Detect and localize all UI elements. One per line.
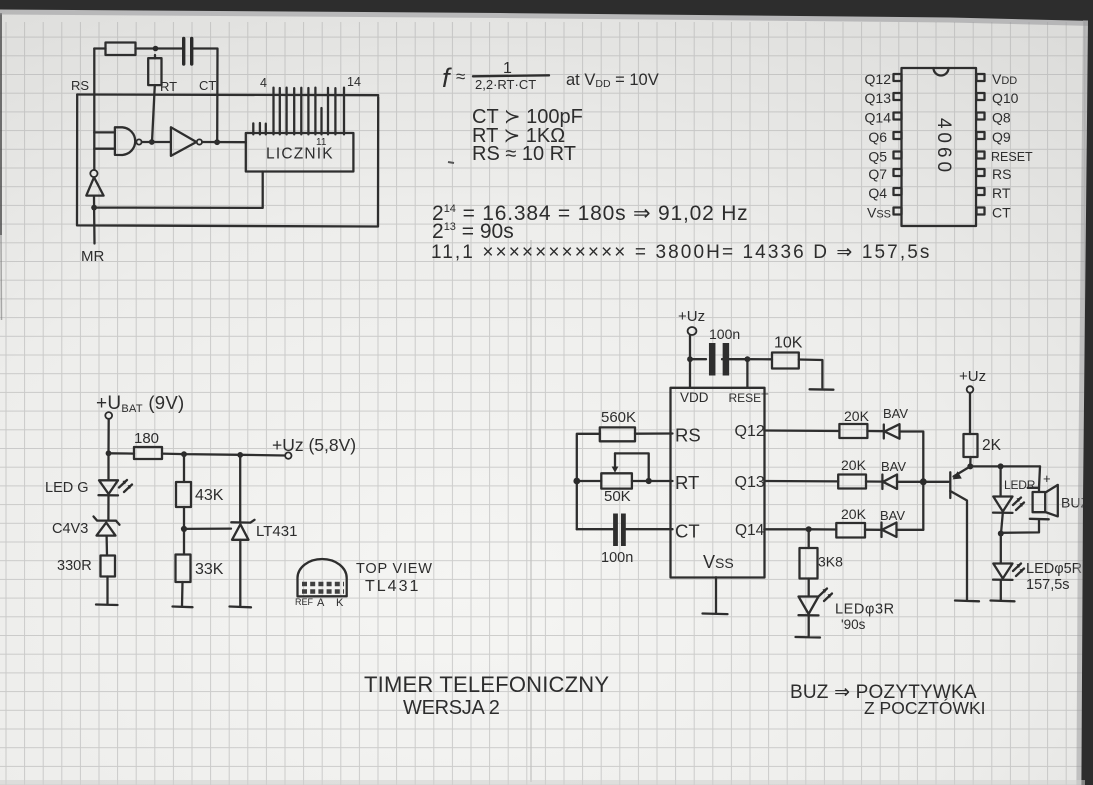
svg-text:RT: RT: [992, 185, 1011, 201]
svg-text:A: A: [317, 597, 325, 609]
svg-text:RT: RT: [675, 472, 699, 493]
svg-text:560K: 560K: [601, 409, 636, 426]
svg-text:RESET: RESET: [991, 150, 1033, 164]
svg-text:+Uz: +Uz: [678, 308, 705, 325]
svg-text:10K: 10K: [774, 335, 803, 352]
svg-text:CT: CT: [199, 78, 216, 93]
svg-text:+: +: [1043, 471, 1051, 486]
svg-text:Q12: Q12: [865, 71, 892, 87]
svg-text:CT: CT: [992, 205, 1011, 221]
svg-text:VDD: VDD: [680, 390, 709, 405]
svg-text:100n: 100n: [709, 326, 740, 342]
svg-text:14: 14: [347, 75, 361, 89]
svg-text:LT431: LT431: [256, 523, 297, 540]
svg-text:Q13: Q13: [865, 90, 892, 106]
svg-text:WERSJA 2: WERSJA 2: [403, 697, 500, 719]
svg-text:100n: 100n: [601, 550, 633, 566]
svg-text:2,2·RT·CT: 2,2·RT·CT: [475, 77, 536, 92]
svg-text:Q14: Q14: [865, 110, 892, 126]
svg-text:11,1 ××××××××××× = 3800H= 1433: 11,1 ××××××××××× = 3800H= 14336 D ⇒ 157,…: [431, 242, 931, 263]
svg-text:+Uz (5,8V): +Uz (5,8V): [272, 435, 356, 455]
svg-text:TL431: TL431: [365, 578, 420, 595]
svg-text:CT: CT: [675, 521, 700, 542]
svg-text:REF: REF: [295, 597, 314, 607]
svg-text:LEDφ5R: LEDφ5R: [1026, 561, 1082, 577]
svg-text:+Uz: +Uz: [959, 368, 986, 385]
svg-text:Q6: Q6: [868, 129, 887, 145]
svg-text:RT: RT: [160, 79, 177, 94]
svg-text:Q10: Q10: [992, 90, 1019, 106]
svg-text:≈: ≈: [456, 67, 465, 86]
svg-text:at VDD = 10V: at VDD = 10V: [566, 71, 659, 90]
svg-text:TOP VIEW: TOP VIEW: [356, 561, 433, 577]
svg-text:20K: 20K: [841, 506, 867, 522]
svg-text:Q9: Q9: [992, 129, 1011, 145]
svg-text:20K: 20K: [841, 457, 867, 473]
svg-text:RS: RS: [992, 166, 1011, 182]
svg-text:VSS: VSS: [703, 552, 734, 572]
svg-text:Q5: Q5: [868, 149, 887, 165]
svg-text:Q12: Q12: [735, 423, 765, 440]
svg-text:'90s: '90s: [841, 617, 866, 632]
svg-text:43K: 43K: [195, 487, 224, 504]
svg-text:LICZNIK: LICZNIK: [266, 146, 334, 163]
svg-text:RESET: RESET: [729, 391, 770, 405]
svg-text:BAV: BAV: [881, 459, 906, 474]
svg-text:Q7: Q7: [868, 166, 887, 182]
svg-text:3K8: 3K8: [818, 554, 843, 570]
svg-text:330R: 330R: [57, 558, 92, 574]
svg-text:Q4: Q4: [868, 185, 887, 201]
svg-text:BAV: BAV: [883, 406, 908, 421]
svg-text:LEDφ3R: LEDφ3R: [835, 602, 895, 618]
svg-text:4: 4: [260, 76, 267, 90]
svg-text:Z POCZTÓWKI: Z POCZTÓWKI: [864, 697, 986, 718]
svg-text:K: K: [336, 597, 344, 609]
svg-text:1: 1: [503, 60, 512, 77]
svg-text:TIMER TELEFONICZNY: TIMER TELEFONICZNY: [364, 672, 609, 697]
svg-text:LEDR: LEDR: [1004, 478, 1036, 492]
svg-text:4060: 4060: [933, 118, 954, 176]
svg-text:C4V3: C4V3: [52, 521, 88, 537]
svg-text:RS: RS: [71, 78, 89, 93]
svg-text:157,5s: 157,5s: [1026, 577, 1070, 593]
svg-text:MR: MR: [81, 248, 104, 265]
svg-text:RS: RS: [675, 425, 701, 446]
svg-text:BAV: BAV: [880, 508, 905, 523]
svg-text:33K: 33K: [195, 561, 224, 578]
svg-text:20K: 20K: [844, 408, 870, 424]
svg-text:Q8: Q8: [992, 110, 1011, 126]
svg-text:11: 11: [316, 137, 327, 148]
svg-text:LED G: LED G: [45, 480, 89, 496]
svg-text:180: 180: [134, 430, 159, 447]
svg-text:50K: 50K: [604, 488, 631, 505]
svg-text:2K: 2K: [982, 437, 1002, 454]
svg-text:Q13: Q13: [735, 474, 765, 491]
svg-text:Q14: Q14: [735, 522, 765, 539]
svg-text:RS ≈ 10 RT: RS ≈ 10 RT: [472, 143, 576, 165]
